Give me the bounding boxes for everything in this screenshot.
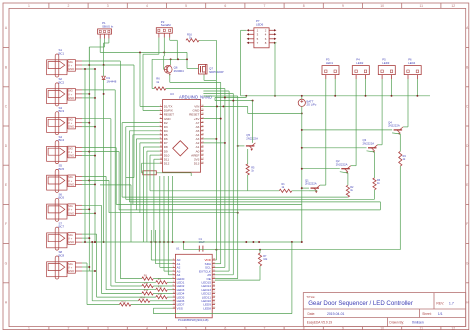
- svg-text:G: G: [5, 261, 8, 265]
- svg-text:LED4: LED4: [408, 61, 415, 65]
- svg-text:D13: D13: [194, 161, 200, 165]
- svg-text:BC4: BC4: [59, 138, 65, 142]
- svg-text:LED8: LED8: [203, 306, 211, 310]
- svg-text:SerialM: SerialM: [161, 23, 171, 27]
- svg-text:BC2: BC2: [59, 80, 65, 84]
- svg-text:R12: R12: [144, 290, 149, 292]
- svg-text:9: 9: [342, 4, 344, 8]
- svg-text:G: G: [466, 261, 469, 265]
- svg-text:4: 4: [146, 4, 148, 8]
- svg-text:GND: GND: [68, 182, 74, 186]
- svg-text:4: 4: [146, 326, 148, 330]
- svg-text:BC1: BC1: [59, 51, 65, 55]
- svg-text:GND: GND: [68, 154, 74, 158]
- svg-text:2N2222A: 2N2222A: [246, 136, 258, 140]
- svg-text:TITLE:: TITLE:: [306, 295, 315, 299]
- svg-text:R14: R14: [140, 298, 145, 300]
- svg-text:3: 3: [107, 4, 109, 8]
- svg-text:GND: GND: [68, 96, 74, 100]
- svg-text:7: 7: [264, 326, 266, 330]
- svg-text:2N2222A: 2N2222A: [336, 162, 348, 166]
- svg-text:LED3: LED3: [382, 61, 389, 65]
- svg-text:7: 7: [264, 4, 266, 8]
- svg-text:F: F: [5, 222, 7, 226]
- svg-text:ARDUINO_NANO: ARDUINO_NANO: [179, 95, 212, 100]
- svg-text:Drawn By:: Drawn By:: [389, 321, 404, 325]
- svg-text:3: 3: [107, 326, 109, 330]
- svg-text:6: 6: [224, 4, 226, 8]
- svg-text:R13: R13: [158, 294, 163, 296]
- svg-text:GND: GND: [68, 240, 74, 244]
- svg-text:GND: GND: [68, 67, 74, 71]
- svg-text:8: 8: [303, 4, 305, 8]
- svg-text:2019-04-01: 2019-04-01: [327, 312, 344, 316]
- svg-text:R10: R10: [144, 283, 149, 285]
- svg-text:1N4448: 1N4448: [107, 79, 117, 83]
- svg-text:GND: GND: [68, 125, 74, 129]
- svg-text:2: 2: [68, 4, 70, 8]
- svg-text:2N2222A: 2N2222A: [305, 182, 317, 186]
- svg-text:GND: GND: [68, 269, 74, 273]
- svg-text:Gear Door Sequencer / LED Cont: Gear Door Sequencer / LED Controller: [308, 300, 413, 307]
- svg-text:REV:: REV:: [436, 301, 444, 305]
- svg-text:2: 2: [68, 326, 70, 330]
- svg-text:PCA9685PW(Q900,118): PCA9685PW(Q900,118): [178, 318, 208, 322]
- svg-text:R15: R15: [121, 301, 126, 303]
- svg-text:U3: U3: [170, 92, 174, 96]
- svg-text:VSS: VSS: [177, 306, 183, 310]
- svg-text:BC7: BC7: [59, 225, 65, 229]
- svg-text:BC8: BC8: [59, 253, 65, 257]
- svg-text:thnilsen: thnilsen: [412, 321, 424, 325]
- svg-text:11: 11: [420, 4, 424, 8]
- svg-text:10: 10: [380, 4, 384, 8]
- svg-text:R11: R11: [158, 287, 163, 289]
- svg-text:BC3: BC3: [59, 109, 65, 113]
- svg-text:2S LiPo: 2S LiPo: [307, 103, 317, 107]
- svg-text:F: F: [466, 222, 468, 226]
- svg-text:5: 5: [185, 4, 187, 8]
- svg-text:2N2222A: 2N2222A: [388, 124, 400, 128]
- svg-text:5: 5: [185, 326, 187, 330]
- svg-text:1: 1: [28, 4, 30, 8]
- svg-text:1/1: 1/1: [438, 312, 443, 316]
- svg-text:GND: GND: [68, 211, 74, 215]
- svg-text:LED6: LED6: [256, 22, 264, 26]
- svg-text:BC6: BC6: [59, 196, 65, 200]
- svg-text:1: 1: [28, 326, 30, 330]
- svg-text:SBUS In: SBUS In: [102, 24, 113, 28]
- svg-text:EasyEDA V5.9.19: EasyEDA V5.9.19: [307, 321, 333, 325]
- svg-text:12: 12: [451, 4, 455, 8]
- svg-text:Date:: Date:: [308, 312, 316, 316]
- svg-text:Sheet:: Sheet:: [422, 312, 431, 316]
- svg-text:LED2: LED2: [356, 61, 363, 65]
- svg-text:U1: U1: [176, 247, 180, 251]
- svg-text:2N2222A: 2N2222A: [363, 141, 375, 145]
- svg-text:BC5: BC5: [59, 167, 65, 171]
- svg-text:2N3904: 2N3904: [174, 69, 185, 73]
- svg-text:LED1: LED1: [326, 61, 333, 65]
- svg-text:D12: D12: [164, 161, 170, 165]
- svg-text:6: 6: [224, 326, 226, 330]
- svg-text:1.7: 1.7: [449, 301, 454, 305]
